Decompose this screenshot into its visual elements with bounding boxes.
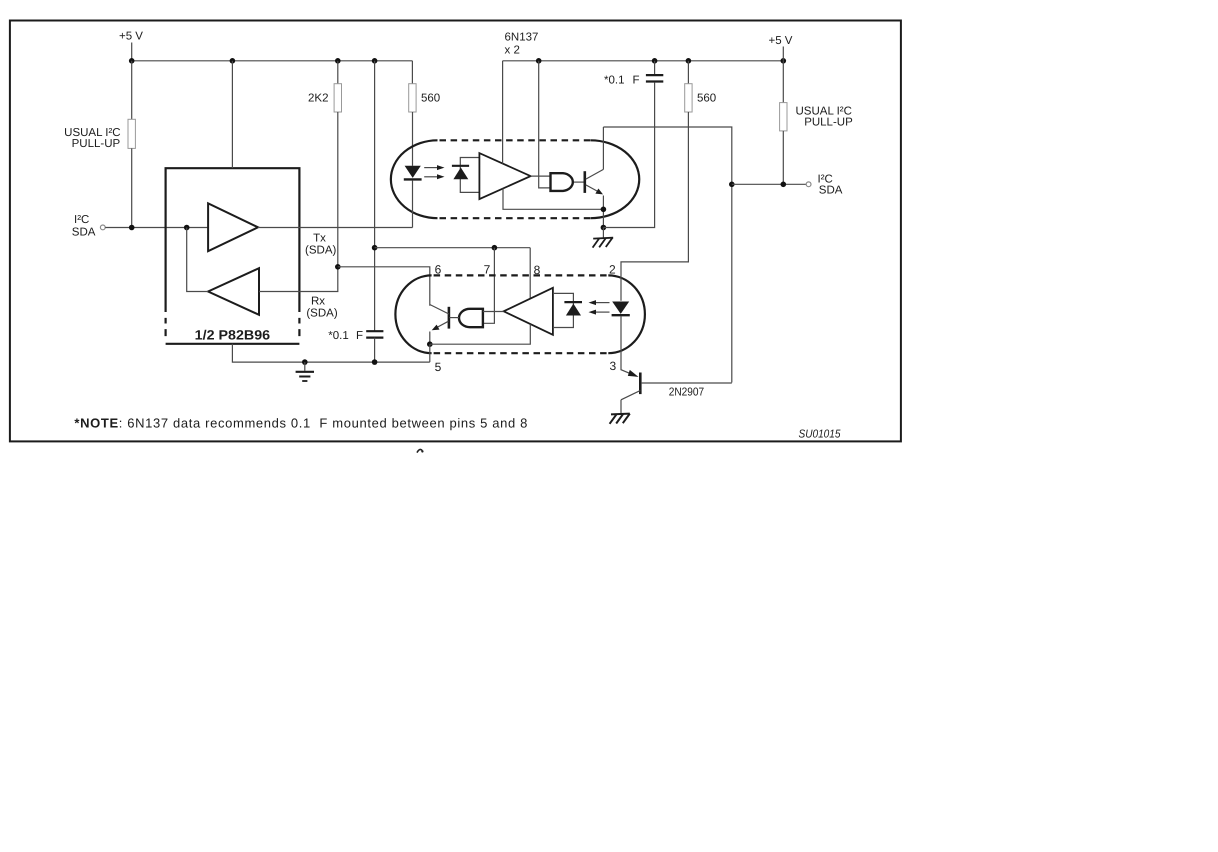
label *0.1 uF (C1) bbox=[328, 330, 363, 342]
ground (U2, slanted) bbox=[593, 228, 614, 248]
svg-text:*0.1: *0.1 bbox=[328, 330, 348, 342]
svg-text:2: 2 bbox=[609, 263, 616, 277]
LED U3 bbox=[612, 302, 630, 316]
wire emitter return U3 (pin 5 node) bbox=[427, 324, 530, 362]
optocoupler U3 6N137 outline (lower) bbox=[395, 275, 644, 353]
svg-text:2N2907: 2N2907 bbox=[669, 386, 705, 398]
transistor Q1 2N2907 bbox=[621, 370, 732, 414]
svg-text:SDA: SDA bbox=[72, 226, 96, 238]
wire emitter node U2 bbox=[601, 83, 655, 231]
svg-text:3: 3 bbox=[609, 359, 616, 373]
buffer Tx (P82B96 upper) bbox=[208, 203, 258, 251]
svg-text:(SDA): (SDA) bbox=[305, 245, 336, 257]
terminal I2C SDA (right) bbox=[806, 174, 843, 197]
ground (Q1, slanted) bbox=[610, 414, 630, 424]
resistor R3 560 (right) bbox=[685, 61, 692, 112]
wire pins 7-8 supply bbox=[375, 245, 531, 251]
resistor R2 560 (left) bbox=[409, 61, 416, 166]
wire pin 6 bbox=[338, 267, 430, 306]
wire Vcc pin8 U2 bbox=[502, 61, 504, 164]
resistor R1 2K2 bbox=[334, 61, 341, 270]
label Rx (SDA) bbox=[306, 296, 337, 320]
buffer Rx (P82B96 lower) bbox=[208, 268, 259, 315]
light arrows U3 bbox=[589, 300, 610, 315]
amplifier U3 bbox=[483, 288, 553, 335]
wire collector route to SDA/base bbox=[603, 127, 734, 383]
wire Vcc to P82B96 bbox=[231, 61, 233, 168]
svg-text:2K2: 2K2 bbox=[308, 92, 328, 104]
svg-text:560: 560 bbox=[697, 93, 716, 105]
ground symbol (earth, P82B96) bbox=[296, 362, 314, 381]
label 6N137 x2 bbox=[505, 31, 539, 56]
svg-text:F: F bbox=[633, 75, 640, 87]
photodiode U3 bbox=[553, 293, 582, 327]
svg-text:I²C: I²C bbox=[74, 214, 89, 226]
svg-text:6N137: 6N137 bbox=[505, 31, 539, 43]
label Tx (SDA) bbox=[305, 233, 336, 257]
svg-text:F: F bbox=[356, 330, 363, 342]
svg-text:PULL-UP: PULL-UP bbox=[72, 138, 121, 150]
wire Rx (SDA) bbox=[259, 267, 338, 292]
gate U2 bbox=[551, 173, 585, 191]
wire +5V bus (right) bbox=[503, 58, 786, 64]
amplifier U2 bbox=[479, 153, 550, 199]
terminal I2C SDA (left) bbox=[72, 214, 105, 239]
label USUAL I2C PULL-UP (left) bbox=[64, 127, 120, 150]
svg-text:*NOTE: 6N137 data recommends 0: *NOTE: 6N137 data recommends 0.1 F mount… bbox=[74, 416, 528, 431]
stray mark bbox=[417, 449, 422, 452]
svg-text:1/2 P82B96: 1/2 P82B96 bbox=[195, 327, 271, 342]
wire ground rail bbox=[232, 344, 429, 365]
wire 560 to pin 2 bbox=[621, 112, 688, 301]
wire pin 3 bbox=[621, 316, 635, 375]
LED U2 bbox=[404, 166, 422, 228]
svg-text:(SDA): (SDA) bbox=[306, 308, 337, 320]
wire SDA out bbox=[732, 182, 806, 188]
svg-text:USUAL I²C: USUAL I²C bbox=[64, 127, 120, 139]
capacitor C1 0.1uF bbox=[366, 331, 383, 337]
wire enable U2 bbox=[539, 61, 551, 188]
svg-text:*0.1: *0.1 bbox=[604, 75, 624, 87]
optocoupler U2 6N137 outline (upper) bbox=[391, 140, 639, 218]
wire +5V to C1 bbox=[372, 61, 378, 331]
power +5V (left) bbox=[119, 31, 143, 61]
light arrows U2 bbox=[424, 165, 444, 179]
svg-text:Tx: Tx bbox=[313, 233, 326, 245]
gate U3 bbox=[449, 309, 483, 327]
IC U1 P82B96 outline bbox=[166, 168, 300, 344]
wire pin 7 bbox=[483, 248, 495, 324]
capacitor C2 0.1uF bbox=[646, 61, 663, 82]
transistor U3 output bbox=[430, 305, 449, 345]
resistor R4 pull-up (right) bbox=[780, 61, 787, 185]
wire C1 to ground rail bbox=[374, 338, 376, 363]
svg-text:PULL-UP: PULL-UP bbox=[804, 117, 853, 129]
svg-text:Rx: Rx bbox=[311, 296, 325, 308]
label *0.1 uF (C2) bbox=[604, 75, 640, 87]
svg-text:560: 560 bbox=[421, 93, 440, 105]
power +5V (right) bbox=[769, 35, 793, 61]
wire Tx (SDA) bbox=[258, 227, 413, 229]
svg-text:SDA: SDA bbox=[819, 184, 843, 196]
wire amp common U2 bbox=[503, 189, 606, 213]
svg-text:+5 V: +5 V bbox=[769, 35, 793, 47]
svg-text:SU01015: SU01015 bbox=[799, 428, 842, 440]
wire internal feedback bbox=[187, 228, 208, 292]
transistor U2 output bbox=[585, 127, 604, 228]
svg-text:5: 5 bbox=[435, 360, 442, 374]
label USUAL I2C PULL-UP (right) bbox=[796, 105, 854, 128]
svg-text:x 2: x 2 bbox=[505, 44, 520, 56]
wire pin 8 bbox=[529, 248, 531, 299]
wire SDA input bbox=[105, 225, 208, 231]
resistor pull-up (left USUAL I2C PULL-UP) bbox=[128, 61, 135, 228]
photodiode U2 bbox=[452, 158, 480, 193]
wire +5V bus (left) bbox=[129, 58, 413, 64]
svg-text:+5 V: +5 V bbox=[119, 31, 143, 43]
